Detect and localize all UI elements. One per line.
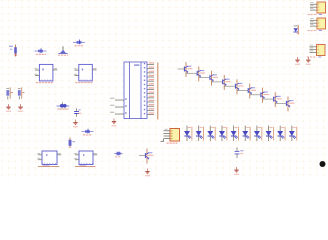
capacitor C1 [6,87,12,99]
ground [234,167,239,175]
LED D10 [266,126,274,142]
ground [18,104,23,112]
capacitor C4 [235,148,244,159]
diode D13 [82,129,94,134]
diode D2 [73,40,85,45]
relay K3 [37,151,61,165]
relay K4 [74,151,97,165]
inductor L1 [57,102,70,107]
ground [112,119,117,127]
LED D6 [219,126,227,142]
transistor Q11 [139,149,153,164]
resistor R2 [69,138,76,149]
LED D8 [242,126,250,142]
diode D14 [115,152,123,156]
wire bus right of U1 [157,63,159,120]
junction dot [320,161,326,167]
transistor Q10 [275,96,294,111]
connector J4 [161,129,180,142]
LED D9 [254,126,262,142]
LED D15 [293,25,299,34]
connector J1 [310,2,326,13]
transistor Q7 [237,84,256,99]
ground [6,104,11,112]
ground [73,120,78,128]
transistor Q1 [58,46,67,53]
diode D1 [35,48,47,53]
transistor Q9 [263,92,282,107]
connector J2 [310,18,326,29]
LED D12 [289,126,297,142]
capacitor C2 [18,87,25,99]
relay K1 [34,64,57,81]
transistor Q8 [250,88,269,103]
transistor Q4 [199,71,218,86]
capacitor C3 [74,108,81,117]
transistor Q2 [178,62,193,77]
transistor Q3 [186,66,205,81]
power VCC [295,57,300,65]
connector J3 [310,45,326,56]
LED D5 [207,126,215,142]
IC U1 [124,62,147,119]
U1 left pins [110,98,127,114]
resistor R1 [9,45,17,57]
transistor Q6 [224,79,243,94]
transistor Q5 [212,75,231,90]
LED D3 [184,126,192,142]
ground [145,169,150,177]
LED D11 [277,126,285,142]
power VDD [306,57,311,65]
relay K2 [74,64,97,81]
LED D4 [196,126,204,142]
LED D7 [231,126,239,142]
U1 right pins with labels [144,62,154,114]
grid background [0,0,328,180]
